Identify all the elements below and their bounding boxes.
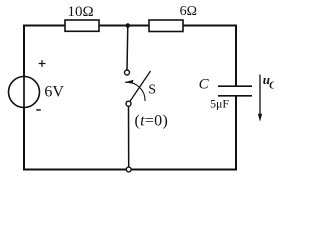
plus sign of source	[39, 60, 46, 67]
uC reference arrow line	[259, 75, 261, 116]
wire switch branch lower	[128, 106, 130, 167]
wire switch branch upper	[126, 26, 129, 71]
svg-text:(t=0): (t=0)	[134, 113, 168, 130]
wire through source	[23, 77, 25, 108]
node junction dot	[126, 23, 131, 28]
voltage source V1 circle	[9, 77, 40, 108]
wire top-right segment	[183, 25, 238, 27]
switch S bottom terminal	[126, 101, 131, 106]
resistor R2 6ohm	[149, 20, 183, 32]
svg-text:5μF: 5μF	[210, 96, 229, 110]
svg-text:10Ω: 10Ω	[68, 4, 94, 20]
svg-text:C: C	[199, 77, 210, 93]
wire between R1 and R2	[99, 25, 150, 27]
minus sign of source	[36, 109, 41, 111]
switch motion arc	[125, 82, 145, 101]
wire right lower	[235, 96, 237, 171]
capacitor C plate bottom	[218, 95, 252, 97]
wire right upper	[235, 25, 237, 87]
switch motion arrowhead	[124, 80, 133, 84]
bottom terminal open circle on bottom wire	[126, 167, 131, 172]
wire left lower	[23, 108, 25, 171]
switch S top terminal	[125, 70, 130, 75]
uC arrowhead	[258, 114, 262, 122]
wire bottom	[23, 169, 237, 171]
resistor R1 10ohm	[65, 20, 99, 31]
wire top-left segment	[24, 25, 66, 27]
wire left upper	[23, 25, 25, 77]
svg-text:6Ω: 6Ω	[180, 4, 197, 19]
capacitor C plate top	[218, 85, 252, 87]
svg-text:6V: 6V	[44, 84, 64, 101]
svg-text:S: S	[148, 83, 156, 98]
switch S blade	[130, 71, 151, 101]
svg-text:C: C	[269, 80, 274, 91]
